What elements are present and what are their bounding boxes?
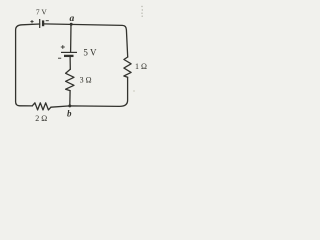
polarity minus of battery B1 bbox=[46, 20, 49, 22]
wire right side from 1-ohm resistor up to top-right corner and top wire back to 7V battery bbox=[43, 24, 127, 57]
wire middle branch between 5V battery and 3-ohm resistor bbox=[69, 56, 71, 69]
svg-text:a: a bbox=[70, 14, 75, 24]
wire bottom segment from 2-ohm resistor through node b to bottom-right corner and up to 1-ohm resistor bbox=[51, 77, 128, 107]
battery B1 7V short negative plate bbox=[42, 20, 44, 26]
node a junction dot bbox=[70, 23, 73, 26]
resistor R1 3 ohm (middle branch zigzag) bbox=[66, 69, 74, 90]
resistor R2 1 ohm (right branch zigzag) bbox=[124, 57, 131, 77]
resistor R3 2 ohm (bottom wire zigzag) bbox=[32, 103, 51, 110]
scan artifact faint smudge right side bbox=[133, 90, 135, 92]
svg-text:b: b bbox=[67, 109, 72, 119]
svg-text:3 Ω: 3 Ω bbox=[80, 76, 92, 85]
battery B2 5V short negative plate bbox=[64, 55, 74, 57]
wire top-left segment from 7V battery to top-left corner, left side, to bottom-left corner bbox=[16, 24, 40, 106]
battery B1 7V long positive plate bbox=[39, 19, 41, 28]
wire middle branch upper (node a down to 5V battery) bbox=[70, 24, 72, 52]
polarity plus of battery B2 bbox=[61, 45, 65, 49]
polarity minus of battery B2 bbox=[58, 57, 61, 59]
node b junction dot bbox=[68, 104, 71, 107]
svg-text:5 V: 5 V bbox=[83, 48, 97, 58]
battery B2 5V long positive plate bbox=[61, 51, 77, 53]
svg-text:1 Ω: 1 Ω bbox=[135, 62, 147, 71]
polarity plus of battery B1 bbox=[30, 20, 33, 23]
scan artifact dotted mark top right bbox=[141, 6, 143, 17]
svg-text:2 Ω: 2 Ω bbox=[35, 114, 47, 123]
svg-text:7 V: 7 V bbox=[36, 8, 47, 17]
wire middle branch lower (3-ohm resistor down to node b) bbox=[69, 91, 71, 106]
